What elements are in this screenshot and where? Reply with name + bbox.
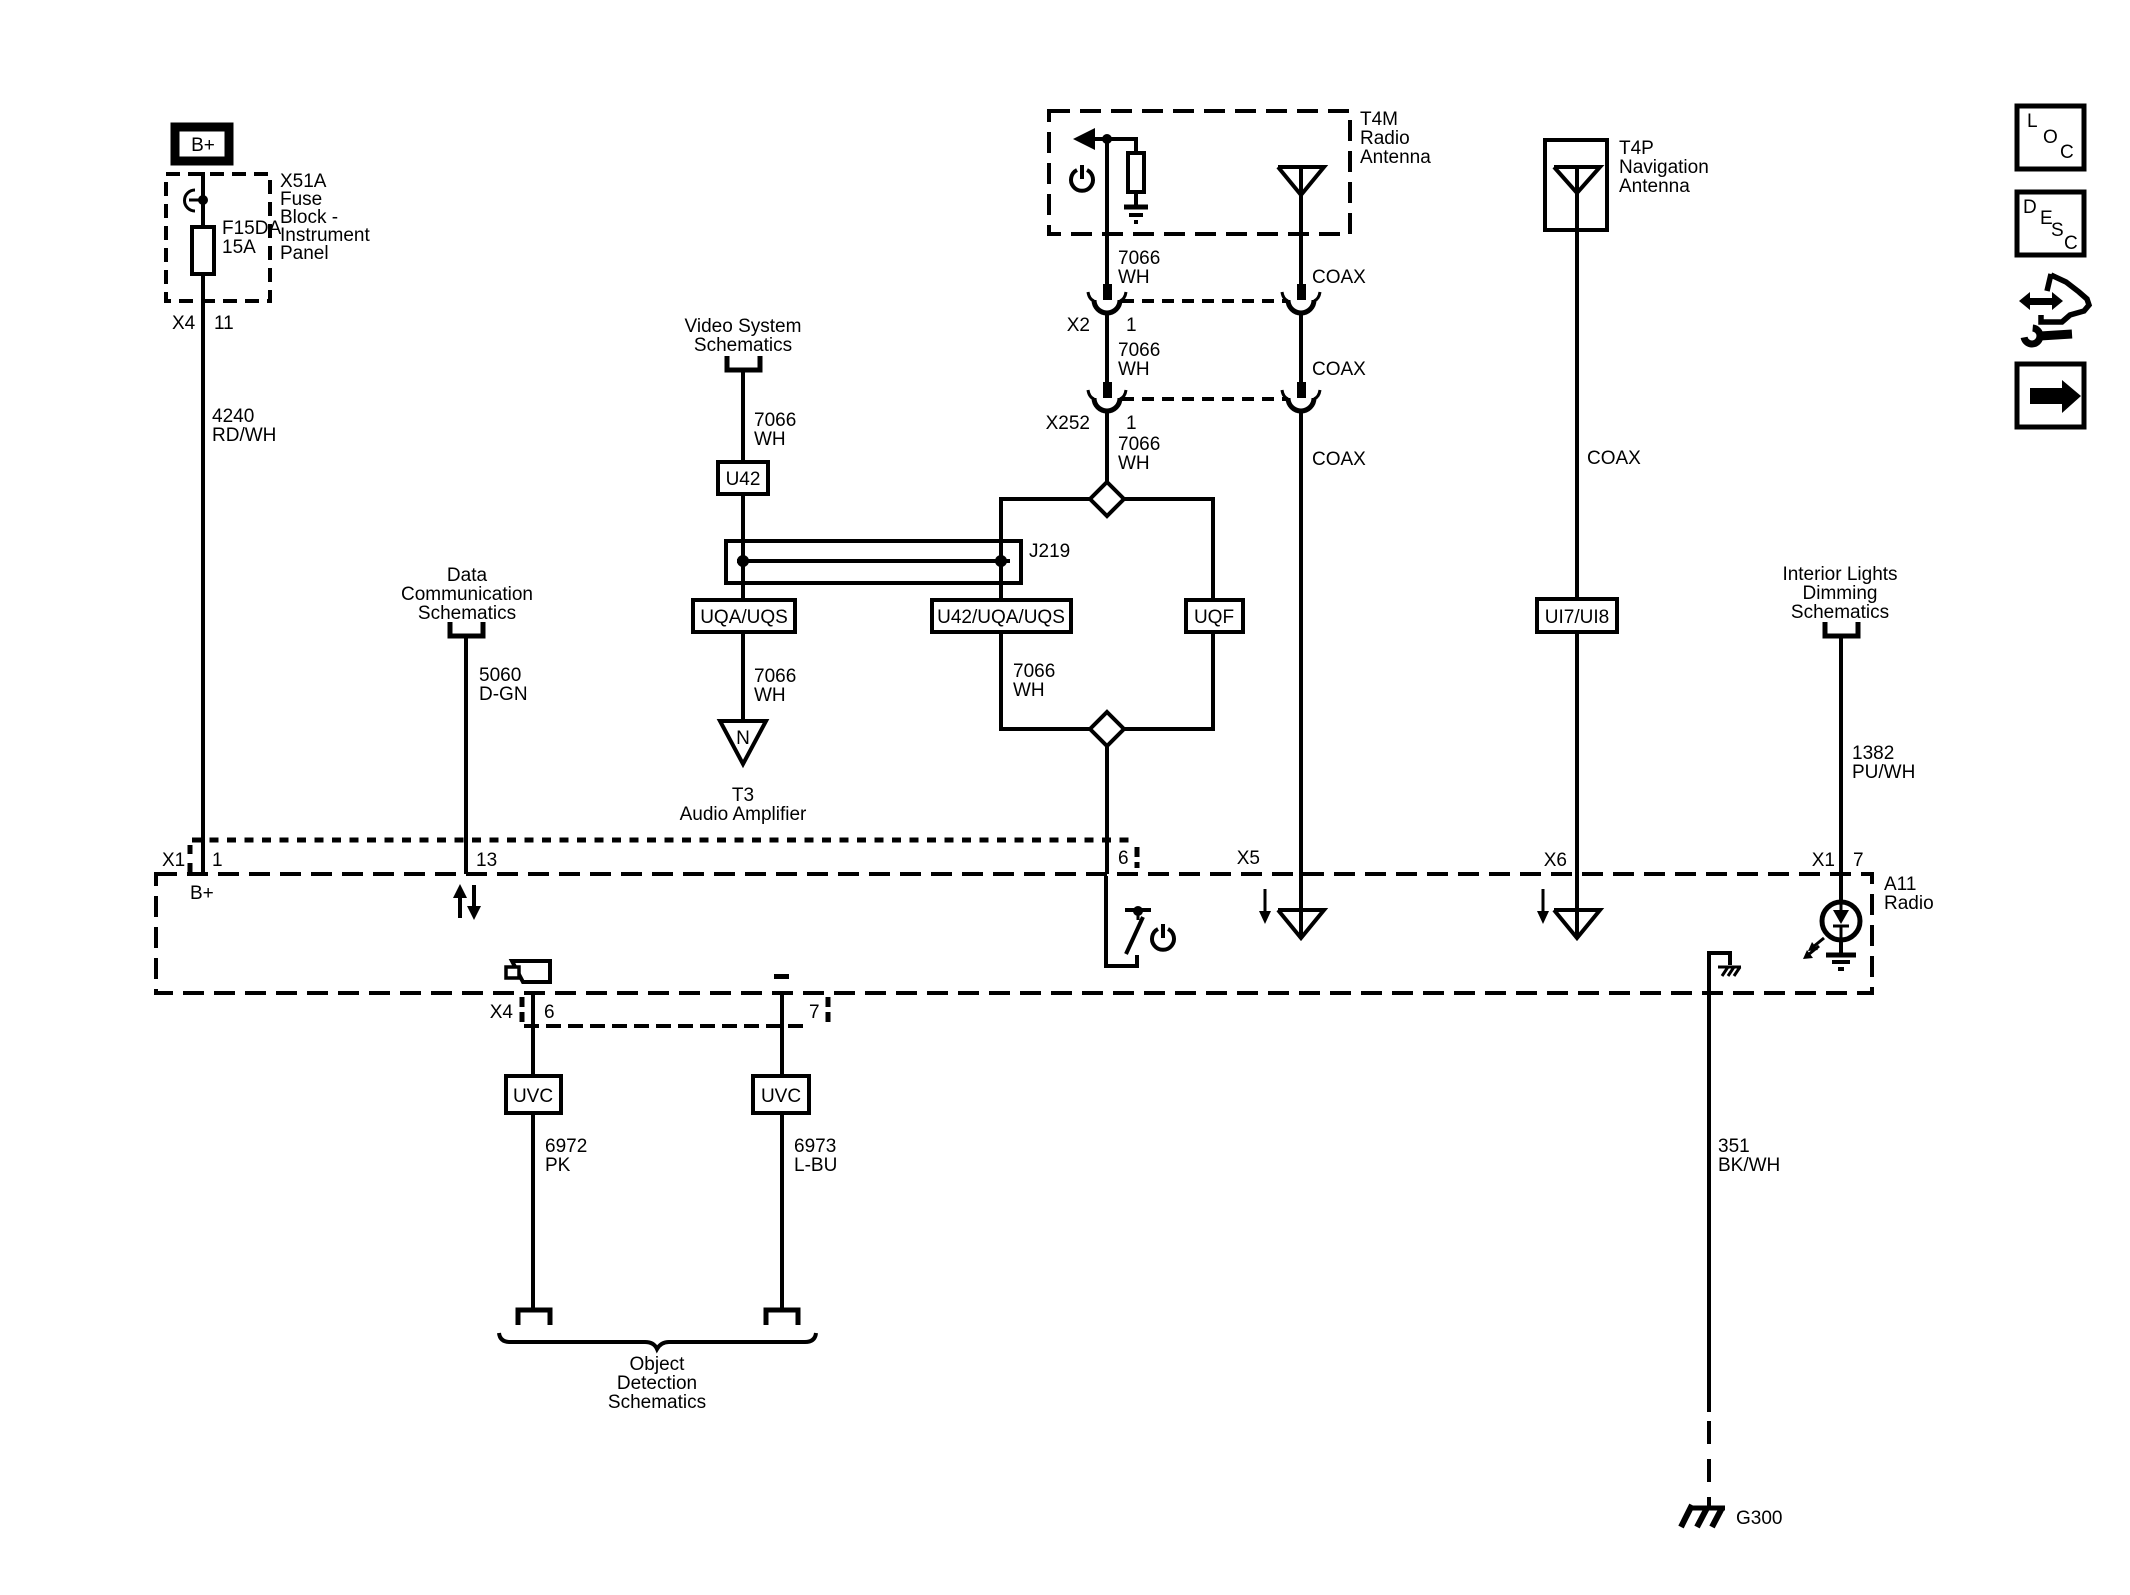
svg-text:7: 7 <box>809 1002 820 1023</box>
inline connector coax left <box>1282 284 1320 313</box>
svg-text:COAX: COAX <box>1312 359 1366 380</box>
svg-text:PK: PK <box>545 1155 571 1176</box>
label 7066 WH loop <box>1013 661 1055 701</box>
terminator left <box>518 1310 550 1325</box>
svg-text:F15DA: F15DA <box>222 218 281 239</box>
loop wires <box>1001 499 1090 600</box>
svg-text:O: O <box>2043 127 2058 148</box>
radio A11 dashed box <box>156 874 1872 993</box>
dotted connector row X1 <box>192 838 1136 843</box>
svg-text:X2: X2 <box>1067 315 1090 336</box>
svg-text:Audio Amplifier: Audio Amplifier <box>680 804 807 825</box>
fuse F15DA <box>192 227 214 274</box>
svg-text:X1: X1 <box>1812 850 1835 871</box>
splice pack J219 bus <box>726 541 1070 583</box>
svg-text:6: 6 <box>544 1002 555 1023</box>
icon car with arrow and wrench <box>2019 274 2089 344</box>
svg-text:COAX: COAX <box>1312 449 1366 470</box>
svg-text:X5: X5 <box>1237 848 1260 869</box>
svg-text:T4P: T4P <box>1619 138 1654 159</box>
svg-text:C: C <box>2060 142 2074 163</box>
radio internal: minus sign pin 7 <box>774 974 789 979</box>
antenna symbol in T4M <box>1278 167 1324 284</box>
fuse block labels <box>222 171 370 264</box>
svg-text:WH: WH <box>754 429 786 450</box>
svg-text:L: L <box>2027 111 2038 132</box>
UQA/UQS box <box>693 600 795 632</box>
svg-text:5060: 5060 <box>479 665 521 686</box>
svg-text:6972: 6972 <box>545 1136 587 1157</box>
wire 351 BK/WH to ground <box>1707 993 1711 1412</box>
svg-text:351: 351 <box>1718 1136 1750 1157</box>
svg-text:7066: 7066 <box>1118 434 1160 455</box>
power feed B+ box <box>175 127 229 161</box>
svg-text:1: 1 <box>1126 413 1137 434</box>
icon arrow box <box>2017 364 2084 427</box>
svg-text:6: 6 <box>1118 848 1129 869</box>
UVC box left <box>506 1076 561 1113</box>
svg-text:Antenna: Antenna <box>1360 147 1431 168</box>
svg-text:B+: B+ <box>190 883 214 904</box>
wire to radio pin 6 <box>1105 746 1109 874</box>
wire 7066 WH to amplifier <box>741 632 745 721</box>
svg-text:S: S <box>2051 220 2064 241</box>
ground in T4M <box>1124 207 1148 222</box>
brace object detection <box>499 1333 816 1349</box>
svg-text:Panel: Panel <box>280 243 329 264</box>
wire 5060 D-GN <box>464 638 468 874</box>
wire UVC left <box>531 994 535 1076</box>
svg-text:PU/WH: PU/WH <box>1852 762 1915 783</box>
wire 7066 WH video <box>741 372 745 462</box>
svg-text:G300: G300 <box>1736 1508 1782 1529</box>
T4M radio antenna dashed box <box>1049 111 1350 234</box>
svg-text:13: 13 <box>476 850 497 871</box>
svg-text:UQA/UQS: UQA/UQS <box>700 607 788 628</box>
coax wire second <box>1299 313 1303 382</box>
svg-text:Schematics: Schematics <box>418 603 516 624</box>
wire 4240 RD/WH <box>201 274 205 874</box>
svg-text:7066: 7066 <box>1118 248 1160 269</box>
svg-text:Schematics: Schematics <box>608 1392 706 1413</box>
svg-text:T4M: T4M <box>1360 109 1398 130</box>
junction dot T4M <box>1102 134 1112 144</box>
svg-text:Schematics: Schematics <box>694 335 792 356</box>
wire 1382 PU/WH <box>1839 638 1843 874</box>
connector X4 pin 11 labels <box>172 313 234 334</box>
video source bracket <box>727 356 760 370</box>
radio internal: power switch pin 6 <box>1106 876 1174 966</box>
terminator right <box>766 1310 798 1325</box>
dashed connector link X252 <box>1122 397 1286 401</box>
svg-text:D: D <box>2023 197 2037 218</box>
svg-text:1: 1 <box>212 850 223 871</box>
svg-text:J219: J219 <box>1029 541 1070 562</box>
junction dot <box>198 195 208 205</box>
radio internal: chassis ground pin X1-8 <box>1709 953 1741 993</box>
svg-text:Antenna: Antenna <box>1619 176 1690 197</box>
interior lights source bracket <box>1825 622 1858 636</box>
interior lights dimming label <box>1782 564 1897 623</box>
svg-text:UQF: UQF <box>1194 607 1234 628</box>
video system schematics label <box>685 316 802 356</box>
wire U42 to bus <box>741 494 745 600</box>
resistor branch <box>1107 139 1136 153</box>
inline connector coax second <box>1282 382 1320 411</box>
svg-text:15A: 15A <box>222 237 256 258</box>
svg-text:7066: 7066 <box>754 666 796 687</box>
svg-text:4240: 4240 <box>212 406 254 427</box>
wire 6972 PK <box>531 1113 535 1308</box>
svg-text:UVC: UVC <box>761 1086 801 1107</box>
svg-text:T3: T3 <box>732 785 754 806</box>
power icon T4M <box>1071 165 1093 191</box>
svg-text:Video System: Video System <box>685 316 802 337</box>
radio internal: LED pin X1-7 <box>1803 874 1860 969</box>
svg-text:X1: X1 <box>162 850 185 871</box>
svg-text:X6: X6 <box>1544 850 1567 871</box>
wire 7066 WH third <box>1105 411 1109 482</box>
label 7066 WH first <box>1118 248 1160 288</box>
svg-text:X4: X4 <box>172 313 196 334</box>
coax wire third to radio <box>1299 411 1303 874</box>
svg-text:COAX: COAX <box>1587 448 1641 469</box>
radio internal: up/down arrows pin 13 <box>453 884 481 920</box>
U42/UQA/UQS box <box>932 600 1071 632</box>
T4M arrow out <box>1073 128 1095 150</box>
UVC box right <box>753 1076 809 1113</box>
svg-text:7: 7 <box>1853 850 1864 871</box>
svg-text:UVC: UVC <box>513 1086 553 1107</box>
icon LOC box <box>2017 106 2084 169</box>
svg-text:WH: WH <box>1118 453 1150 474</box>
splice diamond bottom <box>1090 712 1124 746</box>
dashed connector link X2 <box>1122 299 1286 303</box>
svg-text:Navigation: Navigation <box>1619 157 1709 178</box>
svg-text:Interior Lights: Interior Lights <box>1782 564 1897 585</box>
svg-text:7066: 7066 <box>1013 661 1055 682</box>
wire 7066 WH second <box>1105 313 1109 382</box>
wire to radio X6 <box>1575 632 1579 874</box>
svg-text:1: 1 <box>1126 315 1137 336</box>
data communication source bracket <box>450 622 483 636</box>
UQF box <box>1186 600 1243 632</box>
svg-text:Object: Object <box>630 1354 686 1375</box>
svg-text:Dimming: Dimming <box>1803 583 1878 604</box>
svg-text:RD/WH: RD/WH <box>212 425 276 446</box>
svg-text:B+: B+ <box>191 135 215 156</box>
svg-text:X252: X252 <box>1046 413 1090 434</box>
U42 box <box>718 462 768 494</box>
svg-text:N: N <box>736 728 750 749</box>
coax wire T4P <box>1575 230 1579 599</box>
svg-text:Schematics: Schematics <box>1791 602 1889 623</box>
svg-text:X4: X4 <box>490 1002 514 1023</box>
ground G300 <box>1681 1505 1782 1529</box>
N triangle T3 audio amplifier <box>680 721 807 825</box>
inline connector X252 pin 1 left <box>1088 382 1126 411</box>
svg-text:BK/WH: BK/WH <box>1718 1155 1780 1176</box>
data communication schematics label <box>401 565 533 624</box>
radio internal: antenna X5 <box>1259 874 1324 938</box>
svg-text:D-GN: D-GN <box>479 684 528 705</box>
icon DESC box <box>2017 192 2084 255</box>
svg-text:U42/UQA/UQS: U42/UQA/UQS <box>937 607 1065 628</box>
wire B+ to fuse block <box>201 172 205 227</box>
svg-text:1382: 1382 <box>1852 743 1894 764</box>
svg-text:6973: 6973 <box>794 1136 836 1157</box>
svg-text:Data: Data <box>447 565 488 586</box>
svg-text:Communication: Communication <box>401 584 533 605</box>
fuse block X51A dashed box <box>166 174 270 301</box>
radio internal: camera icon <box>506 961 550 982</box>
svg-text:Detection: Detection <box>617 1373 697 1394</box>
svg-text:COAX: COAX <box>1312 267 1366 288</box>
svg-text:Radio: Radio <box>1360 128 1410 149</box>
splice diamond top <box>1090 482 1124 516</box>
sub connector X4 below radio <box>520 997 525 1022</box>
svg-text:UI7/UI8: UI7/UI8 <box>1545 607 1609 628</box>
UI7/UI8 box <box>1537 599 1617 632</box>
svg-text:WH: WH <box>1118 359 1150 380</box>
svg-text:WH: WH <box>754 685 786 706</box>
svg-text:A11: A11 <box>1884 874 1916 895</box>
radio internal: antenna X6 <box>1537 874 1600 938</box>
svg-text:L-BU: L-BU <box>794 1155 837 1176</box>
svg-text:WH: WH <box>1118 267 1150 288</box>
svg-text:WH: WH <box>1013 680 1045 701</box>
svg-text:C: C <box>2064 233 2078 254</box>
svg-text:7066: 7066 <box>1118 340 1160 361</box>
svg-text:11: 11 <box>214 313 234 334</box>
wire T4M down <box>1105 139 1109 284</box>
svg-text:7066: 7066 <box>754 410 796 431</box>
T4P navigation antenna box <box>1545 140 1607 230</box>
wire UVC right <box>780 994 784 1076</box>
svg-text:Radio: Radio <box>1884 893 1934 914</box>
wire 6973 L-BU <box>780 1113 784 1308</box>
svg-text:U42: U42 <box>726 469 761 490</box>
inline connector X2 pin 1 left <box>1088 284 1126 313</box>
fuse holder clip <box>185 190 196 211</box>
